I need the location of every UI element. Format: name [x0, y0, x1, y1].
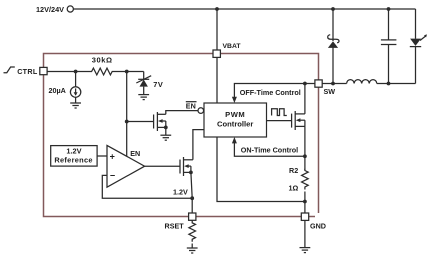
IC boundary box: [44, 54, 319, 217]
svg-text:Reference: Reference: [54, 155, 92, 164]
svg-text:GND: GND: [310, 221, 326, 230]
node Q1 source junction: [164, 126, 168, 130]
wire right rail down to LED: [415, 9, 417, 39]
svg-text:RSET: RSET: [165, 222, 185, 231]
terminal VBAT: [213, 50, 220, 57]
wire top rail: [74, 8, 416, 10]
wire OFF-time: SW to PWM: [234, 84, 315, 98]
transistor Q2: [179, 160, 181, 174]
svg-text:ON-Time Control: ON-Time Control: [241, 145, 298, 154]
transistor Q1: [127, 121, 154, 123]
node R2-GND junction: [303, 200, 307, 204]
terminal RSET: [189, 213, 196, 220]
wire ref to +in: [97, 155, 107, 157]
svg-text:CTRL: CTRL: [17, 67, 38, 76]
wire ON-time: source node to PWM: [234, 143, 305, 156]
node 1.2V junction: [190, 196, 194, 200]
capacitor C1: [388, 9, 390, 40]
wire Q3 drain to SW: [304, 84, 306, 114]
svg-text:1.2V: 1.2V: [173, 188, 188, 197]
svg-text:EN: EN: [130, 149, 140, 158]
wire VBAT drop: [216, 9, 218, 50]
svg-text:30kΩ: 30kΩ: [92, 56, 113, 65]
node SW junction: [303, 82, 307, 86]
node EN-zener junction: [125, 70, 129, 74]
ground below RSET: [191, 244, 193, 249]
svg-text:OFF-Time Control: OFF-Time Control: [240, 88, 301, 97]
svg-text:EN: EN: [186, 102, 196, 111]
wire R2 to GND terminal: [304, 192, 306, 214]
resistor R2: [302, 169, 309, 190]
svg-text:1.2V: 1.2V: [66, 147, 81, 156]
wire EN net vertical: [126, 72, 128, 157]
icon CTRL step waveform: [4, 67, 15, 73]
inductor L1: [347, 80, 377, 84]
LED D3: [410, 39, 421, 46]
node CTRL-I1 junction: [74, 70, 78, 74]
resistor 30k: [90, 68, 115, 75]
node top-C1 junction: [387, 7, 391, 11]
ground below I1: [75, 97, 77, 103]
wire CTRL net: [47, 71, 89, 73]
transistor Q3: [291, 114, 293, 128]
svg-text:R2: R2: [289, 166, 298, 175]
node Q2 source junction: [189, 171, 193, 175]
svg-text:Controller: Controller: [217, 120, 253, 129]
block 1.2V Reference: [51, 146, 97, 167]
node SW-D1 junction: [331, 82, 335, 86]
block PWM controller U1: [204, 103, 267, 137]
op-amp U2: [107, 145, 145, 187]
wire resistor to zener: [115, 71, 144, 73]
ground below Q1: [165, 127, 167, 135]
wire opamp out to Q2 gate: [145, 165, 180, 167]
node Q1 gate junction: [125, 120, 129, 124]
node top-VBAT junction: [215, 7, 219, 11]
diode D1 schottky: [332, 9, 334, 41]
svg-text:1Ω: 1Ω: [289, 183, 299, 192]
wire Q2 source down to RSET: [191, 172, 192, 213]
wire inductor to right: [377, 83, 416, 85]
node ON-time junction: [303, 154, 307, 158]
wire VBAT to PWM: [216, 57, 218, 103]
ground below GND: [300, 247, 311, 249]
svg-text:SW: SW: [324, 87, 336, 96]
zener D2 7V: [143, 72, 145, 80]
wire Q2 drain to PWM: [193, 130, 204, 160]
svg-text:PWM: PWM: [225, 110, 245, 119]
svg-text:12V/24V: 12V/24V: [36, 5, 64, 14]
resistor RSET: [189, 220, 196, 242]
wire Q3 source to R2: [304, 126, 306, 170]
terminal CTRL: [40, 67, 47, 74]
terminal GND: [301, 213, 308, 220]
svg-text:+: +: [110, 152, 115, 162]
wire PWM ground return: [217, 137, 305, 202]
current source I1 20uA: [75, 72, 77, 87]
icon gate squarewave: [272, 109, 287, 116]
ground below D2: [138, 94, 149, 96]
svg-text:VBAT: VBAT: [223, 43, 242, 50]
wire GND down: [304, 220, 306, 247]
wire -in feedback: [102, 175, 192, 198]
terminal 12V/24V input: [67, 6, 73, 12]
wire SW line: [322, 83, 346, 85]
terminal SW: [315, 80, 322, 87]
svg-text:−: −: [110, 171, 115, 181]
node SW-C1 junction: [387, 82, 391, 86]
svg-text:20µA: 20µA: [49, 86, 66, 95]
node top-D1 junction: [331, 7, 335, 11]
bubble on PWM EN pin: [198, 108, 204, 114]
wire PWM to Q3 gate: [267, 120, 292, 122]
svg-text:7V: 7V: [153, 80, 163, 89]
